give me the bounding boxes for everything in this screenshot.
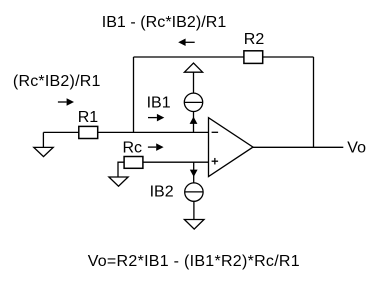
resistor R2 xyxy=(244,51,263,64)
arrow: IB2 direction arrowhead (down) xyxy=(190,170,198,177)
current source IB2 xyxy=(185,183,203,201)
wire: supply arrow to IB1 xyxy=(193,72,195,93)
svg-text:R1: R1 xyxy=(78,109,99,126)
svg-text:R2: R2 xyxy=(244,31,265,48)
resistor R1 xyxy=(79,126,98,138)
arrow: input current direction (right) xyxy=(58,98,74,106)
resistor Rc xyxy=(124,157,143,169)
arrow: IB1 direction arrowhead (up) xyxy=(190,117,198,124)
label: current source IB1 xyxy=(147,95,171,112)
wire: top feedback, right segment xyxy=(263,56,314,58)
label: output node Vo xyxy=(347,139,366,156)
arrow: Rc current direction (right) xyxy=(148,143,164,151)
wire: input to R1 xyxy=(43,131,78,133)
svg-text:IB1: IB1 xyxy=(147,95,171,112)
svg-text:Vo: Vo xyxy=(347,139,366,156)
label: resistor R1 xyxy=(78,109,99,126)
wire: Rc to non-inverting input xyxy=(143,161,209,163)
wire: R1 to inverting input xyxy=(98,131,209,133)
power: supply down-arrow below IB2 xyxy=(184,220,204,230)
label: input current expression (Rc*IB2)/R1 xyxy=(13,73,101,90)
svg-text:IB1 - (Rc*IB2)/R1: IB1 - (Rc*IB2)/R1 xyxy=(102,14,227,31)
ground: left input ground xyxy=(34,147,53,156)
wire: left vertical feedback into inverting node xyxy=(133,57,135,132)
wire: top feedback, left segment xyxy=(134,56,244,58)
svg-text:Vo=R2*IB1 - (IB1*R2)*Rc/R1: Vo=R2*IB1 - (IB1*R2)*Rc/R1 xyxy=(88,253,300,270)
label: resistor Rc xyxy=(123,139,143,156)
wire: non-inverting node to IB2 xyxy=(193,162,195,183)
wire: IB2 to bottom supply xyxy=(193,201,195,219)
current source IB1 xyxy=(184,93,202,111)
wire: left ground stub xyxy=(42,132,44,147)
op-amp U1 xyxy=(209,118,254,177)
wire: op-amp output to Vo xyxy=(253,146,343,148)
label: current source IB2 xyxy=(150,183,174,200)
arrow: IB1 current direction (right) xyxy=(148,114,164,122)
power: supply up-arrow above IB1 xyxy=(184,63,202,72)
label: resistor R2 xyxy=(244,31,265,48)
svg-text:(Rc*IB2)/R1: (Rc*IB2)/R1 xyxy=(13,73,101,90)
arrow: feedback current direction (left) xyxy=(178,39,195,47)
label: feedback current expression IB1 - (Rc*IB2)/R1 xyxy=(102,14,227,31)
wire: right vertical feedback to output xyxy=(313,57,315,147)
wire: Rc left stub to ground xyxy=(118,162,124,177)
pin: non-inverting input plus sign xyxy=(212,158,219,165)
svg-text:IB2: IB2 xyxy=(150,183,174,200)
pin: inverting input minus sign xyxy=(212,131,219,133)
label: output formula Vo=R2*IB1 - (IB1*R2)*Rc/R1 xyxy=(88,253,300,270)
svg-text:Rc: Rc xyxy=(123,139,143,156)
wire: IB1 to inverting node xyxy=(193,112,195,133)
ground: Rc ground xyxy=(109,177,128,186)
